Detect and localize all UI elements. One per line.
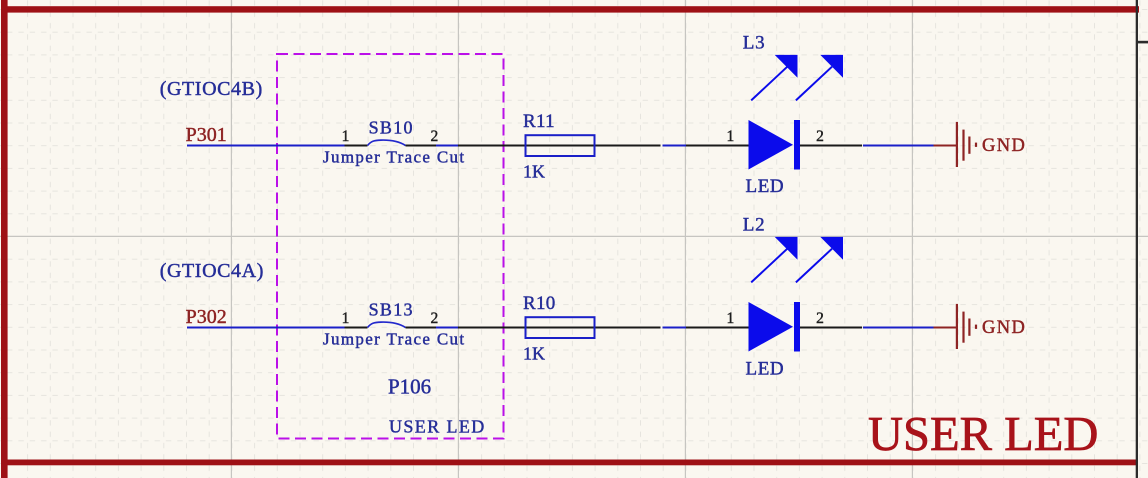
svg-text:P302: P302	[186, 306, 227, 328]
svg-text:LED: LED	[746, 359, 785, 380]
svg-text:R11: R11	[523, 111, 555, 132]
svg-text:Jumper Trace Cut: Jumper Trace Cut	[323, 148, 465, 167]
svg-text:GND: GND	[982, 136, 1026, 156]
svg-text:USER LED: USER LED	[868, 408, 1098, 461]
svg-text:1K: 1K	[523, 162, 545, 182]
svg-text:SB13: SB13	[369, 300, 414, 320]
svg-text:(GTIOC4A): (GTIOC4A)	[160, 260, 264, 282]
svg-text:USER LED: USER LED	[389, 417, 486, 437]
svg-text:2: 2	[431, 128, 439, 145]
svg-text:(GTIOC4B): (GTIOC4B)	[160, 78, 263, 100]
svg-text:2: 2	[816, 310, 824, 327]
svg-text:1: 1	[727, 128, 735, 145]
svg-text:1: 1	[342, 128, 350, 145]
svg-text:GND: GND	[982, 318, 1026, 338]
svg-text:SB10: SB10	[369, 118, 414, 138]
svg-text:R10: R10	[523, 293, 556, 314]
svg-text:P106: P106	[388, 375, 431, 399]
svg-text:P301: P301	[186, 124, 227, 146]
svg-text:2: 2	[431, 310, 439, 327]
svg-text:1: 1	[727, 310, 735, 327]
svg-text:LED: LED	[746, 176, 785, 197]
svg-text:1K: 1K	[523, 344, 545, 364]
svg-text:1: 1	[342, 310, 350, 327]
svg-text:L2: L2	[743, 215, 766, 236]
svg-text:Jumper Trace Cut: Jumper Trace Cut	[323, 330, 465, 349]
svg-text:2: 2	[816, 128, 824, 145]
svg-text:L3: L3	[743, 33, 766, 54]
